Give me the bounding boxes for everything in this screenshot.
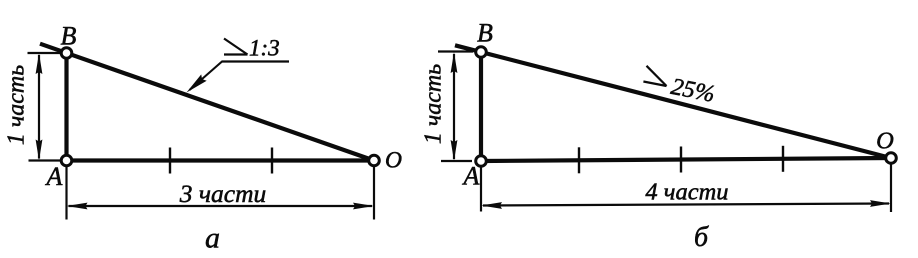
wire: vertical side B-A (right): [479, 52, 483, 161]
extension line at A level (right): [441, 160, 472, 162]
extension line at B level (left): [28, 52, 61, 54]
extension line below O (left): [373, 166, 375, 220]
node A (right): [476, 156, 487, 167]
extension line below A (left): [65, 166, 67, 220]
svg-text:В: В: [477, 19, 493, 48]
svg-text:а: а: [205, 222, 220, 255]
node O (right): [886, 153, 897, 164]
dimension line "1 часть" vertical (left): [36, 53, 43, 161]
svg-text:В: В: [61, 22, 77, 51]
svg-text:1 часть: 1 часть: [421, 64, 447, 144]
svg-text:А: А: [45, 162, 63, 191]
extension line at A level left of A: [29, 159, 61, 161]
wire: base line A-O (left): [67, 158, 375, 162]
svg-text:1 часть: 1 часть: [4, 65, 30, 145]
svg-text:О: О: [385, 148, 402, 174]
extension line at B level (right): [438, 50, 473, 52]
extension line below O (right): [890, 164, 892, 212]
slope symbol triangle (left): [224, 39, 248, 55]
tick mark 2/4 on base (right): [680, 147, 682, 173]
dimension line "3 части" horizontal (left): [67, 203, 375, 210]
tick mark 1/3 on base (left): [169, 148, 171, 174]
slope symbol triangle (right, rotated along slope): [643, 66, 666, 86]
node B (left): [61, 48, 72, 59]
wire: base line A-O (right): [481, 158, 891, 161]
svg-text:3 части: 3 части: [179, 179, 267, 208]
node B (right): [476, 47, 487, 58]
leader shelf line (left): [222, 60, 290, 62]
tick mark 3/4 on base (right): [782, 146, 784, 172]
wire: vertical side B-A (left): [64, 53, 68, 161]
dimension line "4 части" horizontal (right): [481, 200, 891, 209]
svg-text:б: б: [694, 222, 709, 253]
tick mark 2/3 on base (left): [271, 148, 273, 174]
dimension line "1 часть" vertical (right): [451, 52, 458, 161]
leader line with arrow to hypotenuse (left): [184, 62, 222, 96]
node A (left): [61, 155, 72, 166]
svg-text:О: О: [876, 128, 894, 155]
extension line below A (right): [480, 167, 482, 212]
wire: hypotenuse B-O (left): [40, 44, 374, 161]
tick mark 1/4 on base (right): [578, 147, 580, 173]
svg-text:4 части: 4 части: [645, 179, 728, 206]
node O (left): [369, 155, 380, 166]
svg-text:1:3: 1:3: [249, 36, 280, 61]
wire: hypotenuse B-O (right): [455, 45, 891, 158]
svg-text:А: А: [462, 162, 480, 191]
